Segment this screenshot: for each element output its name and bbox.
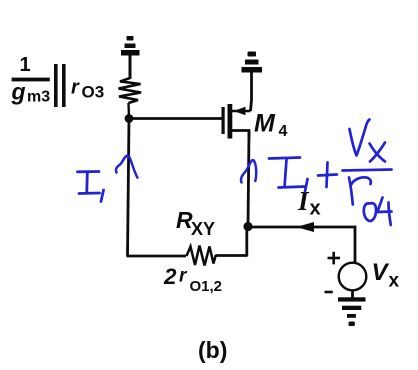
label VX [372,259,400,292]
svg-text:g: g [11,79,26,105]
label 2 rO1,2 [163,264,222,295]
transistor M4 gate bar [222,107,225,134]
label M4 [254,110,288,140]
wire RXY right lead [216,254,248,257]
wire node A to gate of M4 [129,117,222,120]
wire node A down left side [128,119,130,257]
svg-text:x: x [389,271,400,292]
svg-text:O1,2: O1,2 [190,278,223,295]
label RXY [176,207,215,239]
svg-text:4: 4 [279,123,288,140]
svg-text:M: M [254,110,276,138]
annotation blue current arrow Ix on drain wire [241,160,256,182]
wire Vx to ground [351,290,354,298]
ground [338,297,366,326]
node B [243,222,252,231]
svg-text:V: V [372,259,390,286]
svg-text:I: I [297,186,310,216]
wire M4 drain down to node B [248,131,249,226]
annotation blue label I1 [78,172,104,202]
node A [125,114,134,123]
wire supply-left to rO3 [129,55,132,79]
supply VDD left [121,36,140,56]
annotation blue current arrow I1 on left wire [116,156,137,178]
supply VDD right [242,52,263,73]
svg-text:2: 2 [163,264,177,289]
svg-text:O3: O3 [82,83,105,102]
label Ix [297,186,321,220]
transistor M4 drain wire [232,131,249,139]
wire bottom left lead [127,255,187,258]
label 1/gm3 || rO3 [11,54,105,107]
transistor M4 channel bar [228,104,233,139]
resistor RXY [187,246,216,266]
wire corner up to node B [245,226,248,257]
resistor rO3 [119,78,142,103]
svg-text:1: 1 [20,54,31,76]
wire node B to Vx with current arrow [248,227,355,263]
wire rO3 to node A [127,103,130,118]
svg-text:XY: XY [191,219,215,239]
svg-text:x: x [310,198,321,220]
wire supply-right to source corner [251,72,252,111]
svg-text:m3: m3 [27,89,50,106]
transistor M4 source wire with arrow [232,110,251,113]
svg-text:(b): (b) [198,337,227,363]
annotation blue label Ix + Vx/r04 [269,120,392,226]
svg-text:r: r [179,266,188,287]
svg-text:r: r [71,77,80,99]
voltage source VX [339,263,367,291]
